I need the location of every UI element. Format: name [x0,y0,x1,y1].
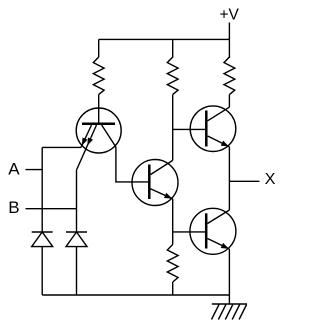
transistor Q1 (multi-emitter input) [76,108,121,170]
resistor R2 [167,57,178,95]
wire bottom rail [42,294,229,296]
transistor Q3 (upper output) [190,106,236,152]
wire +V lead [228,23,230,40]
wire output X stub [229,180,259,182]
wire Q4 base stub [173,231,207,233]
wire input B column [76,170,78,232]
wire Q1 collector to Q2 base [116,147,149,182]
transistor Q2 (phase splitter) [132,160,178,206]
wire Q4 emitter to ground rail [228,249,230,304]
wire rail to R1 [98,39,100,57]
wire Q2 emitter column [172,199,174,245]
diode D1 [32,232,53,295]
svg-text:B: B [8,198,19,217]
resistor R4 [224,57,235,95]
svg-text:A: A [8,159,20,178]
svg-text:X: X [265,171,276,188]
wire R4 to Q3 collector [228,95,230,108]
wire Q3 base stub [173,128,207,130]
wire input B stub [26,208,77,210]
ground [212,304,248,320]
wire output rail mid [228,147,230,210]
resistor R3 [167,245,178,283]
wire top rail [99,38,230,40]
wire R2 to Q2 collector node [172,95,174,161]
wire rail to R4 [228,39,230,58]
diode D2 [66,232,87,295]
resistor R1 [93,57,104,95]
wire rail to R2 [172,39,174,57]
wire input A column [41,147,43,232]
wire R3 to bottom rail [172,282,174,295]
svg-text:+V: +V [220,7,240,24]
transistor Q4 (lower output) [190,208,236,254]
wire emitter A horizontal [42,146,81,148]
wire input A stub [26,169,43,171]
wire R1 to Q1 base [98,95,100,123]
